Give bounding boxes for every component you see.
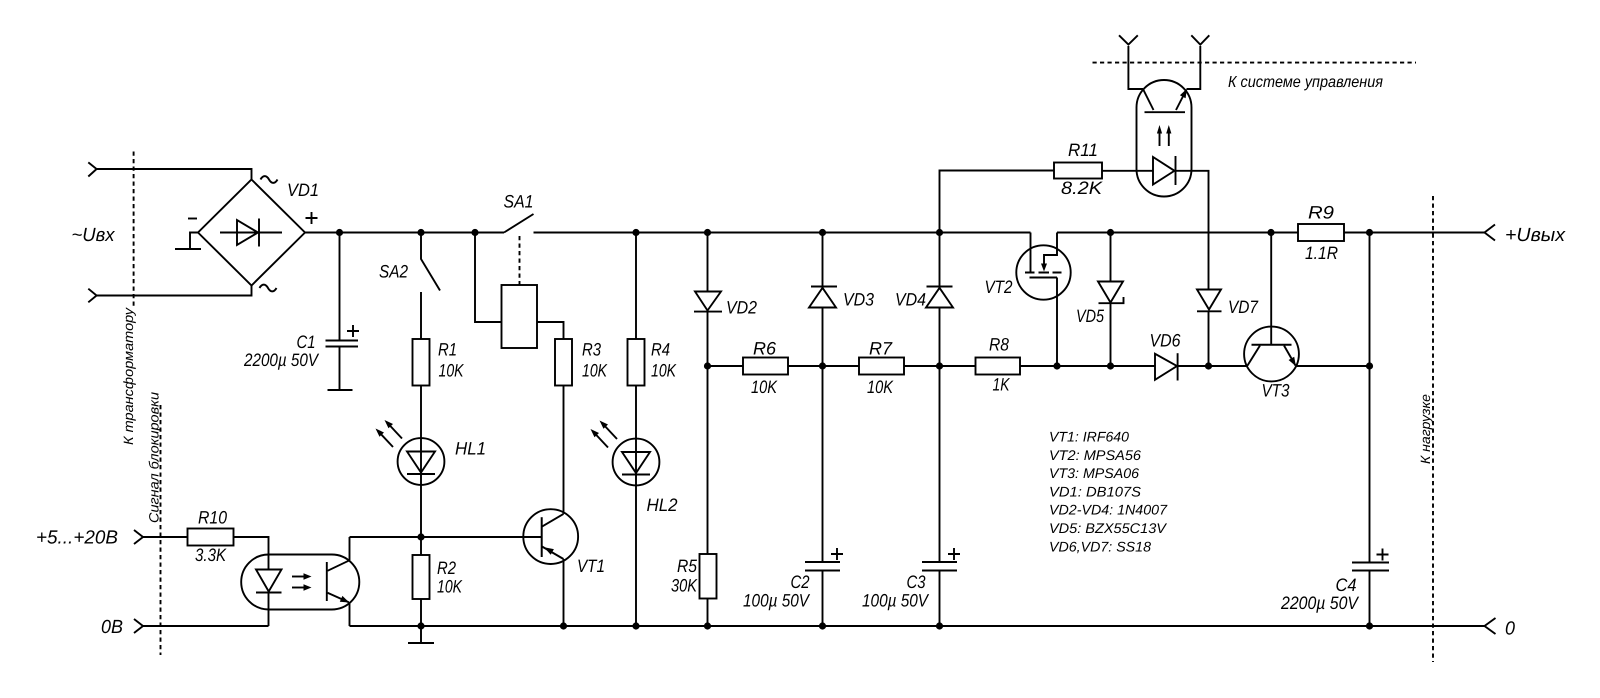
diode VD3 (cathode up) — [809, 287, 837, 308]
svg-text:1K: 1K — [993, 375, 1011, 395]
transistor VT1 — [523, 509, 578, 564]
capacitor C3 wires and plates — [922, 366, 957, 626]
svg-text:2200µ 50V: 2200µ 50V — [1280, 593, 1360, 613]
svg-text:C1: C1 — [297, 332, 316, 352]
LED HL2 — [613, 439, 660, 486]
C3 polarity plus — [948, 548, 960, 560]
wire top AC input to bridge — [97, 169, 252, 180]
svg-text:VD2: VD2 — [726, 298, 757, 318]
junction bus/VD4-R11 — [936, 229, 943, 236]
wire R3 to VT1 collector — [563, 386, 565, 514]
svg-text:10K: 10K — [751, 377, 778, 397]
wire VD3 to mid rail — [822, 308, 824, 367]
capacitor C4 riser wire and plates — [1352, 233, 1389, 627]
bridge minus terminal mark — [188, 218, 197, 220]
parts list — [1049, 429, 1168, 555]
svg-text:3.3K: 3.3K — [195, 545, 227, 565]
junction bottom rail/C3 — [936, 622, 943, 629]
svg-text:VT1: VT1 — [577, 556, 605, 576]
svg-text:HL1: HL1 — [455, 439, 486, 459]
wire VT1 emitter to bottom rail — [563, 559, 565, 626]
VT2 gate lead from bus with arrow — [1044, 233, 1057, 265]
svg-text:10K: 10K — [867, 377, 894, 397]
svg-text:К трансформатору: К трансформатору — [121, 307, 136, 445]
wire mid rail to R5 — [707, 366, 709, 554]
U2 light arrows — [1157, 125, 1172, 146]
svg-text:R1: R1 — [438, 340, 457, 360]
boundary dashed line blocking signal — [160, 405, 162, 655]
svg-text:R8: R8 — [989, 335, 1009, 355]
wire R11 to optocoupler U2 LED — [1102, 170, 1153, 172]
resistor R11 — [1054, 163, 1102, 179]
wire control line opto U1 to VT1 base — [350, 536, 542, 538]
wire mid rail R6-R7 — [788, 365, 859, 367]
svg-text:R11: R11 — [1068, 140, 1098, 160]
junction mid rail/VT2 drain — [1053, 362, 1060, 369]
wire bus to VD3 — [822, 233, 824, 287]
junction bus/VT3 collector — [1267, 229, 1274, 236]
svg-text:VD2-VD4: 1N4007: VD2-VD4: 1N4007 — [1049, 502, 1168, 518]
input terminal arrow 0V — [134, 619, 143, 633]
wire R1 through HL1 to control node — [420, 386, 422, 538]
junction mid rail/R6-R7-C2 — [819, 362, 826, 369]
svg-text:100µ 50V: 100µ 50V — [743, 591, 811, 611]
junction control line / R2 — [417, 533, 424, 540]
junction bus/R4 — [632, 229, 639, 236]
svg-text:C2: C2 — [791, 572, 810, 592]
svg-text:VT2: VT2 — [985, 277, 1013, 297]
U1 phototransistor collector diagonal — [328, 560, 350, 571]
svg-text:0В: 0В — [101, 617, 123, 638]
svg-text:+Uвых: +Uвых — [1505, 225, 1567, 246]
input terminal arrow +5..+20V — [134, 530, 143, 544]
wire R10 to U1 LED anode — [234, 537, 269, 570]
junction bottom rail/HL2 — [632, 622, 639, 629]
bridge AC tilde bottom — [260, 285, 277, 292]
svg-text:10K: 10K — [651, 361, 677, 381]
VT2 drain lead to mid rail — [1056, 278, 1058, 367]
wire R2 top — [420, 537, 422, 555]
diode VD4 (cathode up) — [926, 287, 953, 308]
VT3 collector wire to bus — [1270, 233, 1272, 345]
wire U2 LED cathode down to VD7 — [1176, 171, 1209, 290]
wire VD7 to mid rail — [1208, 311, 1210, 366]
diode VD7 — [1197, 290, 1222, 312]
resistor R4 — [628, 339, 645, 386]
svg-text:R6: R6 — [753, 339, 777, 359]
junction bottom rail/R5 — [704, 622, 711, 629]
transistor VT2 (p-MOSFET) body — [1016, 245, 1070, 299]
svg-text:SA2: SA2 — [379, 262, 408, 282]
svg-text:VD7: VD7 — [1228, 297, 1259, 317]
HL1 emission arrows — [376, 420, 403, 447]
wire relay coil right to R3 — [537, 322, 564, 339]
junction bottom rail/C2 — [819, 622, 826, 629]
svg-text:Сигнал блокировки: Сигнал блокировки — [147, 391, 162, 523]
junction bus/VD2 — [704, 229, 711, 236]
capacitor C2 wires and plates — [805, 366, 840, 626]
svg-text:0: 0 — [1505, 619, 1515, 640]
junction mid rail/VD2-R6-R5 — [704, 362, 711, 369]
junction bus/VD3 — [819, 229, 826, 236]
svg-text:SA1: SA1 — [504, 192, 534, 212]
junction bus/VD5 — [1107, 229, 1114, 236]
optocoupler U1 body — [241, 555, 359, 610]
U1 light arrows — [292, 573, 312, 591]
svg-text:10K: 10K — [437, 577, 463, 597]
boundary dashed line to load — [1432, 196, 1434, 662]
svg-text:VD5: VD5 — [1076, 306, 1105, 326]
wire bottom rail input section — [143, 625, 269, 627]
resistor R5 — [700, 554, 717, 599]
diode VD6 — [1155, 353, 1178, 380]
wire R9 to output terminal — [1344, 232, 1485, 234]
ground symbol below R2 — [408, 626, 434, 643]
svg-text:R3: R3 — [582, 340, 601, 360]
svg-text:VD4: VD4 — [895, 290, 926, 310]
resistor R1 — [413, 339, 430, 386]
wire R2 to bottom rail — [420, 599, 422, 626]
wire VD4 to mid rail — [939, 308, 941, 367]
wire main bus SA1 to VT2 — [534, 232, 1031, 234]
bridge AC tilde top — [261, 176, 278, 183]
transistor VT3 — [1244, 327, 1299, 382]
svg-text:R5: R5 — [677, 556, 698, 576]
U1 LED — [256, 570, 282, 593]
C1 polarity plus — [347, 325, 359, 337]
relay coil of SA1 — [502, 285, 538, 348]
svg-text:1.1R: 1.1R — [1305, 243, 1338, 263]
optocoupler U2 body — [1137, 80, 1192, 197]
svg-text:~Uвх: ~Uвх — [72, 225, 116, 246]
U2 phototransistor emitter diagonal with arrow — [1176, 89, 1187, 110]
svg-text:VD3: VD3 — [843, 290, 874, 310]
wire U1 emitter to bottom rail — [349, 602, 351, 626]
bridge VD1 inner diode — [220, 219, 282, 247]
switch SA1 dashed actuator link — [519, 236, 521, 285]
svg-text:VD6,VD7: SS18: VD6,VD7: SS18 — [1049, 538, 1151, 554]
junction bottom rail/VT1 emitter — [560, 622, 567, 629]
resistor R6 — [743, 358, 788, 375]
wire input to R10 — [143, 536, 188, 538]
wire bus to relay coil left — [475, 233, 502, 323]
U2 collector lead with antenna arrow — [1128, 46, 1143, 89]
boundary dashed line to transformer — [133, 152, 135, 307]
wire main bus VT2 to R9 — [1057, 232, 1298, 234]
svg-text:10K: 10K — [439, 361, 465, 381]
LED HL1 — [398, 438, 445, 485]
junction mid rail/R7-R8-C3 — [936, 362, 943, 369]
svg-text:VT3: MPSA06: VT3: MPSA06 — [1049, 465, 1139, 481]
svg-text:VT1: IRF640: VT1: IRF640 — [1049, 429, 1129, 445]
wire bus to VD5 — [1110, 233, 1112, 282]
wire bus to VD4 and riser to R11 — [940, 171, 1055, 287]
junction mid/output riser — [1366, 362, 1373, 369]
U2 LED — [1153, 156, 1176, 185]
resistor R10 — [188, 529, 234, 546]
U1 phototransistor base bar — [326, 562, 328, 601]
C4 polarity plus — [1377, 549, 1389, 561]
svg-text:R4: R4 — [651, 340, 670, 360]
U2 emitter lead with antenna arrow — [1187, 46, 1201, 89]
svg-text:R2: R2 — [437, 558, 456, 578]
svg-text:C3: C3 — [907, 572, 926, 592]
svg-text:2200µ 50V: 2200µ 50V — [243, 350, 320, 370]
resistor R7 — [859, 358, 904, 375]
junction bus/C4 riser — [1366, 229, 1373, 236]
svg-text:VD1: DB107S: VD1: DB107S — [1049, 483, 1142, 499]
svg-text:8.2K: 8.2K — [1061, 178, 1103, 198]
junction bus/SA2 — [417, 229, 424, 236]
input terminal arrow top AC phase — [88, 162, 96, 176]
switch SA2 — [421, 233, 440, 340]
svg-text:C4: C4 — [1336, 575, 1357, 595]
junction mid rail/VD5 — [1107, 362, 1114, 369]
wire mid rail R6 left — [708, 365, 744, 367]
VT2 channel segments — [1025, 272, 1062, 274]
wire main bus bridge to SA1 — [305, 232, 504, 234]
wire mid rail VD6 to VT3 base — [1178, 365, 1248, 367]
svg-text:30K: 30K — [671, 576, 698, 596]
junction bus/C1 — [336, 229, 343, 236]
svg-text:10K: 10K — [582, 361, 608, 381]
svg-text:VD6: VD6 — [1150, 331, 1182, 351]
svg-text:К системе управления: К системе управления — [1228, 74, 1383, 91]
junction bottom rail/R2 ground — [417, 622, 424, 629]
wire mid rail R7-R8 — [904, 365, 976, 367]
resistor R9 — [1298, 224, 1344, 241]
C2 polarity plus — [831, 548, 843, 560]
wire bottom AC input to bridge — [97, 286, 252, 296]
resistor R8 — [976, 358, 1021, 375]
svg-text:HL2: HL2 — [647, 495, 678, 515]
diode VD2 — [694, 292, 722, 312]
wire R5 to bottom rail — [707, 599, 709, 627]
output terminal arrow +Uvyh — [1485, 225, 1496, 241]
VT2 gate bar — [1030, 277, 1058, 279]
svg-text:R7: R7 — [869, 339, 893, 359]
wire bus to VD2 — [707, 233, 709, 292]
U2 phototransistor base bar — [1145, 111, 1186, 113]
bridge plus terminal mark — [306, 212, 318, 224]
svg-text:+5...+20В: +5...+20В — [36, 528, 118, 549]
wire bottom rail main section — [350, 625, 1485, 627]
VT2 source lead from bus — [1030, 233, 1032, 272]
wire bus to R4 — [635, 233, 637, 340]
svg-text:К нагрузке: К нагрузке — [1418, 394, 1433, 464]
input terminal arrow bottom AC phase — [88, 289, 96, 303]
svg-text:VD1: VD1 — [287, 180, 319, 200]
junction mid rail/VD7 — [1205, 362, 1212, 369]
bridge left vertex chassis mark — [175, 233, 201, 250]
capacitor C1 wires and plates — [326, 233, 359, 391]
wire R4 through HL2 to bottom rail — [635, 386, 637, 627]
U1 phototransistor emitter diagonal with arrow — [328, 593, 350, 603]
resistor R3 — [555, 339, 572, 386]
svg-text:100µ 50V: 100µ 50V — [862, 591, 930, 611]
junction bus/relay coil — [471, 229, 478, 236]
output terminal arrow 0 — [1485, 618, 1496, 634]
HL2 emission arrows — [591, 421, 618, 448]
svg-text:VD5: BZX55C13V: VD5: BZX55C13V — [1049, 520, 1168, 536]
U2 phototransistor collector diagonal — [1143, 89, 1154, 110]
svg-text:VT2: MPSA56: VT2: MPSA56 — [1049, 447, 1141, 463]
wire mid rail R8 to VD6 — [1020, 365, 1155, 367]
zener diode VD5 — [1098, 282, 1124, 304]
svg-text:R9: R9 — [1308, 203, 1334, 223]
svg-text:R10: R10 — [198, 508, 227, 528]
resistor R2 — [413, 555, 430, 599]
wire U1 collector to control line — [349, 537, 351, 560]
junction bottom rail/C4 — [1366, 622, 1373, 629]
boundary dashed line to control system — [1093, 62, 1417, 64]
ground bar below C1 — [328, 389, 353, 391]
wire VD2 to mid rail — [707, 312, 709, 366]
switch SA1 blade — [504, 214, 534, 233]
wire VD5 to mid rail — [1110, 303, 1112, 366]
bridge rectifier VD1 diamond body — [198, 180, 305, 286]
wire VT3 emitter to output riser — [1296, 365, 1370, 367]
svg-text:VT3: VT3 — [1262, 381, 1290, 401]
wire U1 LED cathode to 0V input rail — [268, 593, 270, 627]
